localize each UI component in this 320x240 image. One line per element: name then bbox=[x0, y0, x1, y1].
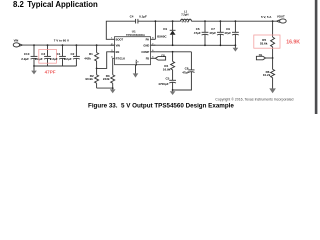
svg-text:C4: C4 bbox=[130, 15, 134, 19]
capacitor C9 bbox=[224, 21, 239, 45]
node bus-C10 bbox=[33, 65, 35, 67]
svg-text:442k: 442k bbox=[84, 57, 91, 61]
page edge bar bbox=[315, 0, 318, 114]
svg-text:53.6k: 53.6k bbox=[260, 41, 268, 45]
wire SW top rail bbox=[138, 20, 181, 22]
pin COMP 6 bbox=[151, 51, 156, 53]
svg-text:47µF: 47µF bbox=[224, 31, 231, 35]
svg-text:TPS54560DDA: TPS54560DDA bbox=[126, 33, 145, 37]
svg-text:47PF: 47PF bbox=[45, 69, 56, 74]
capacitor C5 bbox=[158, 77, 176, 91]
svg-text:GND: GND bbox=[143, 43, 149, 47]
svg-text:C1: C1 bbox=[57, 52, 61, 56]
svg-text:PH: PH bbox=[146, 37, 150, 41]
node bus junctions bbox=[172, 44, 174, 46]
resistor R4 bbox=[163, 52, 175, 80]
net flag FB left bbox=[155, 53, 165, 60]
svg-text:C3: C3 bbox=[41, 52, 45, 56]
svg-text:RT/CLK: RT/CLK bbox=[116, 56, 126, 60]
capacitor C10 bbox=[21, 45, 37, 66]
wire BOOT riser bbox=[106, 21, 135, 39]
diode D1 B560C bbox=[157, 21, 175, 45]
svg-text:Typical Application: Typical Application bbox=[27, 0, 98, 9]
svg-text:5 V, 5 A: 5 V, 5 A bbox=[261, 15, 272, 19]
svg-text:7.2µH: 7.2µH bbox=[181, 13, 188, 17]
node FB divider junction bbox=[272, 57, 274, 59]
terminal VIN bbox=[13, 38, 22, 47]
ground output bus bbox=[233, 45, 239, 51]
op-amp U1 TPS54560DDA box bbox=[111, 29, 156, 66]
svg-text:7 V to 60 V: 7 V to 60 V bbox=[54, 38, 69, 42]
pin BOOT 1 bbox=[111, 38, 115, 40]
wire COMP bbox=[155, 51, 191, 53]
terminal VOUT bbox=[277, 14, 287, 23]
svg-text:2.2µF: 2.2µF bbox=[21, 57, 29, 61]
svg-text:4700pF: 4700pF bbox=[158, 82, 169, 86]
resistor R6 bbox=[263, 58, 275, 89]
resistor R1 bbox=[84, 45, 98, 68]
node EN junction bbox=[96, 68, 98, 70]
wire output gnd bus bbox=[151, 44, 236, 46]
svg-text:8.2: 8.2 bbox=[13, 0, 25, 9]
svg-text:COMP: COMP bbox=[141, 50, 149, 54]
svg-text:10.2k: 10.2k bbox=[263, 73, 271, 77]
pin VIN 2 bbox=[111, 44, 115, 46]
node input rail junctions bbox=[33, 44, 97, 46]
capacitor C7 bbox=[209, 21, 224, 45]
capacitor C4 boot bbox=[130, 15, 147, 24]
pin FB 5 bbox=[151, 57, 156, 59]
capacitor C3 bbox=[35, 45, 51, 66]
ground PWPD bbox=[133, 65, 139, 78]
capacitor C1 bbox=[50, 45, 66, 66]
svg-text:FB: FB bbox=[259, 53, 263, 57]
red highlight box around C3 bbox=[39, 49, 57, 63]
node comp gnd bbox=[172, 89, 174, 91]
svg-text:2.2µF: 2.2µF bbox=[64, 57, 72, 61]
svg-text:VOUT: VOUT bbox=[277, 14, 285, 18]
svg-text:16.9k: 16.9k bbox=[163, 68, 171, 72]
svg-text:BOOT: BOOT bbox=[116, 37, 124, 41]
svg-text:90.9k: 90.9k bbox=[85, 77, 93, 81]
ground R2 R3 bbox=[110, 88, 116, 93]
svg-text:16.9K: 16.9K bbox=[286, 39, 300, 45]
node R3 gnd bbox=[112, 87, 114, 89]
wire input rail bbox=[22, 44, 114, 46]
wire input gnd bus bbox=[34, 65, 76, 67]
pin EN 3 bbox=[111, 51, 115, 53]
svg-text:R1: R1 bbox=[89, 52, 93, 56]
wire R2 R3 bottom bbox=[97, 87, 113, 89]
pin GND 7 bbox=[151, 44, 156, 46]
svg-text:47µF: 47µF bbox=[194, 31, 201, 35]
svg-text:B560C: B560C bbox=[157, 34, 167, 38]
svg-text:FB: FB bbox=[161, 53, 165, 57]
wire EN to pin 3 bbox=[97, 52, 115, 69]
net flag FB right bbox=[256, 53, 272, 60]
red highlight box around R5 bbox=[254, 35, 280, 48]
capacitor C2 bbox=[64, 45, 80, 66]
wire PH riser bbox=[154, 21, 156, 39]
svg-text:Figure 33. 5 V Output TPS5456: Figure 33. 5 V Output TPS54560 Design Ex… bbox=[88, 102, 234, 109]
svg-text:VIN: VIN bbox=[116, 43, 120, 47]
ground input bbox=[31, 66, 37, 74]
svg-text:U1: U1 bbox=[132, 29, 136, 33]
node output rail junctions bbox=[204, 20, 206, 22]
wire divider drop bbox=[272, 21, 274, 37]
inductor L1 bbox=[181, 9, 192, 22]
svg-text:VIN: VIN bbox=[14, 38, 19, 42]
svg-text:Copyright © 2016, Texas Instru: Copyright © 2016, Texas Instruments Inco… bbox=[215, 98, 293, 102]
svg-text:0.1µF: 0.1µF bbox=[139, 15, 147, 19]
svg-text:D1: D1 bbox=[163, 27, 167, 31]
ground comp bbox=[170, 90, 176, 95]
svg-text:2.2µF: 2.2µF bbox=[50, 57, 58, 61]
svg-text:FB: FB bbox=[146, 56, 150, 60]
pin PH 8 bbox=[151, 38, 156, 40]
resistor R3 bbox=[103, 58, 115, 88]
resistor R5 bbox=[260, 37, 275, 58]
capacitor C8 comp parallel bbox=[173, 52, 195, 90]
node SW junctions bbox=[155, 20, 157, 22]
svg-text:C10: C10 bbox=[24, 52, 30, 56]
resistor R2 bbox=[85, 68, 98, 88]
ground R6 bbox=[269, 88, 276, 93]
svg-text:EN: EN bbox=[116, 50, 120, 54]
svg-text:C2: C2 bbox=[71, 52, 75, 56]
svg-text:47µF: 47µF bbox=[209, 31, 216, 35]
svg-text:243k: 243k bbox=[103, 77, 110, 81]
svg-text:C5: C5 bbox=[166, 77, 170, 81]
svg-text:47pF: 47pF bbox=[182, 70, 189, 74]
capacitor C6 bbox=[194, 21, 209, 45]
